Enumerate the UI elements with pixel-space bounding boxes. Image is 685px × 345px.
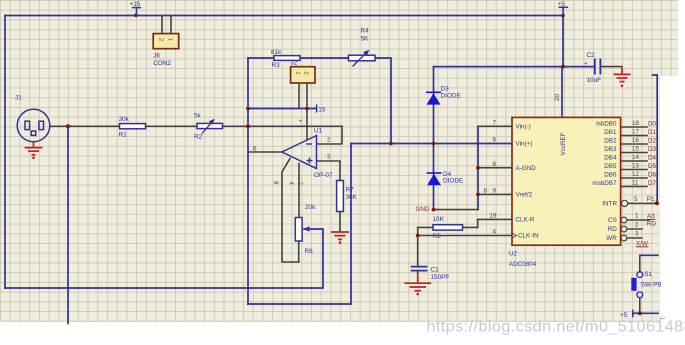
svg-text:D4: D4 [648, 154, 657, 161]
pin bubble INTR [622, 200, 628, 206]
wire R3 to R4 [300, 57, 349, 59]
svg-text:6: 6 [253, 145, 257, 152]
net label decorations [636, 219, 656, 246]
svg-text:OP-07: OP-07 [314, 172, 333, 179]
junction switch +5 node [638, 311, 642, 315]
svg-text:5K: 5K [361, 36, 370, 43]
svg-text:ADC0804: ADC0804 [509, 261, 537, 268]
wire J6 pin 2 [161, 16, 163, 34]
wire R3 left link [248, 57, 274, 59]
wire analog rail y=143.5 to ADC Vin(+) [351, 143, 512, 145]
svg-text:1: 1 [295, 72, 301, 75]
wire ADC pins 7/8/9 tie vertical x=478 [477, 126, 479, 209]
pin bubble CS [621, 217, 627, 223]
wire switch top link [640, 254, 658, 256]
svg-text:1: 1 [635, 213, 639, 220]
svg-text:DIODE: DIODE [441, 92, 461, 99]
connector J6 [153, 34, 179, 49]
svg-text:msbDB7: msbDB7 [592, 180, 617, 187]
power port +15 top left [132, 8, 141, 16]
svg-text:P1: P1 [647, 196, 655, 203]
svg-text:8: 8 [493, 161, 497, 168]
svg-text:GND: GND [416, 206, 430, 213]
ground right of C2 [614, 67, 631, 82]
IC U2 ADC0804 [512, 117, 621, 245]
junction pin9 tie [476, 193, 480, 197]
wire right edge vertical x=657.2 [653, 75, 658, 204]
svg-text:81k: 81k [271, 49, 282, 56]
svg-text:VccREF: VccREF [560, 132, 567, 155]
svg-text:17: 17 [632, 128, 639, 135]
svg-text:R4: R4 [361, 28, 370, 35]
svg-text:5: 5 [634, 196, 638, 203]
svg-text:C2: C2 [587, 52, 596, 59]
svg-text:6: 6 [493, 137, 497, 144]
svg-text:CLK-R: CLK-R [516, 217, 535, 224]
wire ADC pin 4 CLK-IN line [418, 235, 512, 237]
svg-text:4: 4 [493, 229, 497, 236]
svg-text:8: 8 [272, 181, 279, 185]
svg-text:DB6: DB6 [604, 171, 617, 178]
svg-text:+15: +15 [130, 1, 141, 8]
resistor R3 [274, 56, 300, 61]
svg-text:WR: WR [606, 235, 617, 242]
svg-text:7: 7 [493, 120, 497, 127]
svg-text:U1: U1 [314, 127, 323, 134]
wire R4 right down to analog rail [375, 58, 391, 144]
wire WR stub [627, 237, 642, 239]
svg-text:DB1: DB1 [604, 129, 617, 136]
svg-text:DB2: DB2 [604, 137, 617, 144]
wire R6 bottom lead [298, 241, 300, 262]
wire switch lower lead [639, 298, 641, 314]
svg-text:12: 12 [632, 171, 639, 178]
pin bubble RD [621, 226, 627, 232]
svg-text:11: 11 [632, 179, 639, 186]
svg-text:150PF: 150PF [431, 274, 450, 281]
svg-text:CS: CS [608, 217, 617, 224]
power port +5 bottom right [632, 310, 634, 318]
svg-text:18: 18 [632, 120, 639, 127]
svg-text:CON2: CON2 [153, 60, 171, 67]
wire C2 right lead to ground [601, 66, 622, 68]
wire +5 drop x=563 [562, 16, 564, 67]
svg-text:5k: 5k [194, 113, 202, 120]
svg-text:U2: U2 [509, 250, 518, 257]
svg-text:Vref/2: Vref/2 [516, 192, 533, 199]
svg-text:INTR: INTR [602, 200, 617, 207]
wire +15 rail y=108.5 under J2 [248, 108, 315, 110]
ground below J1 [25, 142, 43, 155]
junction GND node [432, 208, 436, 212]
svg-text:DB5: DB5 [604, 163, 617, 170]
svg-text:7: 7 [296, 182, 303, 186]
svg-text:30K: 30K [346, 194, 358, 201]
potentiometer R4 [349, 50, 376, 67]
wire INTR stub [628, 202, 657, 204]
wire switch upper lead [639, 255, 641, 271]
svg-text:10K: 10K [433, 216, 445, 223]
wire +15/+5 top rail [5, 15, 563, 17]
svg-text:R3: R3 [272, 62, 281, 69]
svg-text:20: 20 [554, 94, 561, 101]
wire feedback x=351 down and y=304 back [248, 144, 351, 305]
svg-text:RD: RD [608, 226, 618, 233]
ground below C1 [405, 272, 432, 291]
wire D4 column [433, 144, 435, 210]
svg-text:J6: J6 [153, 53, 160, 60]
svg-text:SW-PB: SW-PB [641, 281, 662, 288]
op-amp U1 OP-07 [282, 136, 317, 169]
junction R3 loop on main wire [246, 124, 250, 128]
wire R5/CLK-IN down to C1 [417, 227, 419, 265]
wire op-amp pin 3 to R7 [317, 161, 340, 181]
wire ADC pin 9 stub [478, 193, 512, 195]
wire J1 to R1 [50, 125, 120, 127]
junction R4 drop on analog rail [389, 142, 393, 146]
svg-text:DB4: DB4 [604, 154, 617, 161]
wire ADC pin 19 CLK-R line [478, 218, 512, 220]
svg-text:15: 15 [632, 145, 639, 152]
wire R5 right up to CLK-R [463, 219, 478, 227]
svg-text:A-GND: A-GND [516, 165, 537, 172]
junction input node x=68 [66, 124, 70, 128]
svg-text:+: + [299, 118, 303, 125]
svg-text:R5: R5 [433, 233, 442, 240]
power port +5 top right [559, 7, 569, 15]
wire CS stub [627, 219, 649, 221]
svg-text:DIODE: DIODE [443, 177, 463, 184]
connector J2 [291, 67, 315, 83]
junction pin8 tie [476, 166, 480, 170]
svg-text:19: 19 [490, 213, 497, 220]
svg-text:DB3: DB3 [604, 146, 617, 153]
junction +15 port on rail [134, 13, 138, 17]
wire RD stub [627, 228, 642, 230]
wire ADC pin 8 stub [478, 167, 512, 169]
svg-text:30k: 30k [119, 116, 130, 123]
svg-text:+: + [584, 60, 588, 67]
svg-text:https://blog.csdn.net/m0_51061: https://blog.csdn.net/m0_51061483 [427, 319, 685, 336]
pin bubble WR [621, 235, 627, 241]
svg-text:Vin(+): Vin(+) [516, 141, 533, 148]
svg-text:Vin(-): Vin(-) [516, 123, 531, 130]
svg-text:1: 1 [167, 38, 173, 41]
svg-text:J1: J1 [15, 95, 22, 102]
wire op-amp output pin 6 stub [248, 151, 282, 153]
svg-text:X/W: X/W [636, 240, 648, 247]
potentiometer R2 [197, 119, 223, 134]
svg-text:13: 13 [632, 162, 639, 169]
svg-text:14: 14 [632, 154, 639, 161]
svg-text:+5: +5 [558, 1, 566, 8]
junction +5 port on rail [561, 14, 565, 18]
svg-text:4: 4 [288, 182, 295, 186]
svg-text:3: 3 [635, 231, 639, 238]
capacitor C2 polarized [595, 59, 601, 75]
wire stub right of switch node [640, 312, 658, 314]
svg-text:10uF: 10uF [587, 77, 602, 84]
connector J1 [17, 109, 50, 142]
ground below R7 [331, 232, 349, 239]
wire op-amp pin 1 offset null [298, 164, 300, 218]
svg-text:D0: D0 [648, 120, 657, 127]
IC U2 pin texts [509, 120, 617, 267]
svg-text:2: 2 [303, 72, 309, 75]
svg-text:D7: D7 [648, 180, 657, 187]
wire R2 to op-amp pin 2 corner [223, 125, 343, 127]
svg-text:D2: D2 [648, 137, 657, 144]
wire C2 left lead [563, 66, 594, 68]
wire R3 loop left vertical x=248 (down to feedback) [247, 58, 249, 304]
svg-text:R6: R6 [305, 248, 314, 255]
push button S1 SW-PB [631, 272, 642, 298]
svg-text:J2: J2 [291, 60, 298, 67]
svg-text:D3: D3 [648, 146, 657, 153]
junction CLK-IN / R5 / C1 [416, 234, 420, 238]
wire R7 bottom to ground [339, 212, 341, 232]
svg-text:2: 2 [158, 38, 164, 41]
power port +15 mid [316, 105, 318, 113]
resistor R1 [120, 124, 146, 129]
wire ADC pin 7 stub [478, 125, 512, 127]
svg-text:lsbDB0: lsbDB0 [596, 120, 617, 127]
junction J2 pin on +15 rail [305, 107, 309, 111]
svg-text:R7: R7 [346, 187, 355, 194]
junction +15 rail on R3 loop [246, 107, 250, 111]
potentiometer R6 [295, 218, 309, 242]
wire GND node link to pins 7/8/9 vertical [434, 209, 479, 211]
wire J6 pin 1 [170, 16, 172, 34]
wire +5 port to switch node [633, 312, 640, 314]
wire bottom horizontal y=288 to R6 wiper [5, 229, 323, 288]
svg-text:16: 16 [632, 137, 639, 144]
svg-text:D5: D5 [648, 163, 657, 170]
svg-text:R2: R2 [194, 134, 203, 141]
svg-text:20k: 20k [305, 204, 316, 211]
junction C2 node [561, 65, 565, 69]
diode D4 [427, 173, 442, 185]
svg-text:15: 15 [318, 107, 326, 114]
svg-text:2: 2 [327, 136, 331, 143]
wire D3 top link to +5 node [434, 66, 564, 68]
svg-text:3: 3 [327, 153, 331, 160]
resistor R7 [337, 181, 344, 212]
wire ADC data stubs DB0-DB7 [621, 127, 647, 187]
svg-text:R1: R1 [119, 132, 128, 139]
wire ADC pin 20 top [561, 67, 563, 118]
wire R5 left lead [418, 226, 433, 228]
wire J2 pin 2 down to op-amp V+ [306, 83, 308, 140]
diode D3 [426, 92, 441, 104]
wire R1 to R2 [146, 125, 198, 127]
svg-text:2: 2 [635, 222, 639, 229]
svg-text:8: 8 [484, 188, 488, 195]
wire op-amp pin 8 offset null with diagonal [282, 159, 299, 263]
wire corner into op-amp pin 2 [317, 126, 342, 144]
wire vertical drop x=68 from input node [67, 126, 69, 323]
svg-text:C1: C1 [431, 266, 440, 273]
svg-text:9: 9 [493, 188, 497, 195]
svg-text:RD: RD [647, 220, 657, 227]
svg-text:CLK-IN: CLK-IN [518, 233, 539, 240]
svg-text:S1: S1 [644, 271, 652, 278]
wire J2 pin 1 [298, 83, 300, 108]
wire D3 column [433, 67, 435, 144]
junction INTR on right vertical [655, 201, 659, 205]
wire left edge drop x=5 [4, 16, 6, 289]
junction D3/D4 on analog rail [432, 142, 436, 146]
resistor R5 [433, 225, 463, 230]
svg-text:D6: D6 [648, 171, 657, 178]
capacitor C1 [411, 267, 428, 271]
svg-text:D1: D1 [648, 129, 657, 136]
